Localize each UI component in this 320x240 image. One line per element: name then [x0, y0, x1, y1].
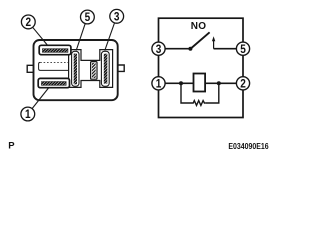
resistor branch wire right [205, 83, 219, 103]
terminal slot 3 [101, 51, 109, 86]
svg-text:5: 5 [85, 12, 91, 24]
callout pin 5 [81, 10, 95, 24]
svg-text:NO: NO [191, 21, 207, 32]
pin 5 [236, 42, 249, 56]
wire coil to node B [205, 82, 219, 84]
svg-text:3: 3 [114, 11, 120, 23]
svg-text:E034090E16: E034090E16 [228, 142, 269, 151]
right mounting tab [118, 65, 124, 71]
relay coil [194, 74, 206, 92]
pin 3 [152, 42, 165, 56]
leader line to pin 1 [32, 88, 48, 109]
terminal slot 5 [72, 51, 79, 86]
svg-text:2: 2 [240, 78, 246, 90]
center rib [91, 62, 97, 80]
junction node B [217, 81, 221, 85]
junction node A [179, 81, 183, 85]
wire pin1 to node A [165, 82, 181, 84]
leader line to pin 3 [105, 23, 115, 51]
callout pin 2 [21, 15, 35, 29]
svg-text:3: 3 [156, 44, 162, 56]
svg-text:1: 1 [25, 109, 31, 121]
callout pin 1 [21, 107, 35, 121]
svg-text:1: 1 [156, 78, 162, 90]
wire pin3 to switch [165, 48, 190, 50]
leader line to pin 5 [76, 24, 85, 51]
callout pin 3 [110, 9, 124, 23]
switch pivot junction [188, 47, 192, 51]
case seam band [39, 62, 69, 70]
wire node A to coil [181, 82, 194, 84]
pin 2 [236, 77, 249, 91]
terminal slot 2 [39, 45, 71, 54]
relay body [34, 40, 118, 100]
wire node B to pin2 [219, 82, 237, 84]
pin 1 [152, 77, 165, 91]
resistor branch wire left [181, 83, 192, 103]
svg-text:P: P [8, 141, 15, 152]
terminal slot 1 [38, 78, 69, 87]
schematic frame [159, 18, 244, 117]
left mounting tab [27, 65, 33, 72]
svg-text:5: 5 [240, 44, 246, 56]
wire switch to pin5 [214, 48, 237, 50]
switch blade NO contact [190, 32, 209, 49]
svg-text:2: 2 [26, 17, 32, 29]
switch arrow [212, 36, 215, 49]
recess contour [69, 50, 113, 88]
leader line to pin 2 [33, 27, 48, 45]
resistor [192, 101, 206, 106]
